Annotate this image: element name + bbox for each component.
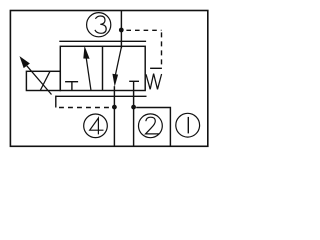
wire dashed pilot to port 4 line: [59, 107, 112, 109]
valve body: [60, 46, 145, 90]
port circle 3: [87, 13, 111, 37]
proportional solenoid box: [26, 71, 60, 90]
proportional arrow through solenoid: [27, 66, 52, 95]
label 1: [187, 117, 189, 133]
wire port 2 vertical: [133, 91, 135, 147]
solenoid slash: [40, 71, 50, 90]
label 4: [90, 118, 104, 134]
border frame: [10, 11, 207, 147]
wire pilot drop from lower rail: [55, 96, 57, 108]
node junction dot on port 2 line: [131, 105, 136, 110]
port circle 4: [84, 114, 108, 138]
wire port 3 vertical: [120, 11, 122, 49]
valve position divider: [102, 46, 104, 90]
flow arrow left cell: [85, 50, 91, 91]
port circle 1: [176, 113, 200, 137]
spring: [146, 74, 162, 90]
label 3: [95, 16, 106, 33]
wire dashed pilot from port 3 to spring chamber: [126, 29, 161, 31]
wire rail below valve (infinite positioning): [56, 95, 147, 97]
node junction dot on port 4 line: [112, 105, 117, 110]
port 2 box: [136, 108, 170, 147]
flow arrow right cell: [115, 48, 122, 83]
wire rail above valve (infinite positioning): [59, 40, 146, 42]
blocked port T left cell: [65, 81, 78, 83]
port circle 2: [139, 114, 163, 138]
blocked port T right cell: [129, 80, 139, 82]
label 2: [146, 117, 160, 134]
node junction dot on port 3 line: [119, 28, 124, 33]
wire port 4 vertical: [113, 86, 115, 146]
